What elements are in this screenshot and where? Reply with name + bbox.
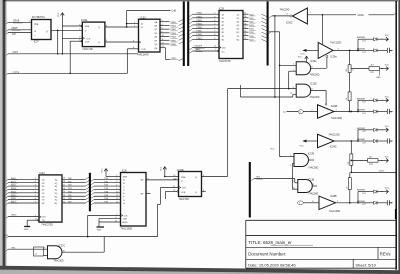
svg-text:14: 14 bbox=[63, 195, 65, 197]
svg-text:15: 15 bbox=[115, 221, 117, 223]
svg-text:6Q: 6Q bbox=[237, 32, 240, 34]
svg-text:QH: QH bbox=[140, 194, 144, 196]
wire CLK riser bbox=[62, 26, 82, 54]
IC26 CLK wire bbox=[88, 214, 121, 237]
IC29C input arrow bbox=[300, 140, 318, 148]
svg-text:74AC00D: 74AC00D bbox=[54, 260, 64, 263]
left scan edge bar bbox=[0, 0, 6, 274]
IC29B input bbox=[283, 110, 318, 114]
IC26 QH wire bbox=[146, 178, 179, 180]
IC13B output bbox=[312, 184, 317, 186]
flip-flop IC30a label bbox=[81, 19, 88, 22]
IC20a output wire bbox=[310, 66, 326, 68]
svg-text:8D: 8D bbox=[42, 203, 45, 205]
svg-text:13: 13 bbox=[162, 46, 164, 48]
net SD1 wire bbox=[251, 177, 298, 183]
svg-text:12: 12 bbox=[116, 198, 118, 200]
sheet text bbox=[355, 263, 376, 268]
svg-text:3: 3 bbox=[35, 181, 36, 183]
svg-text:8: 8 bbox=[35, 198, 36, 200]
svg-text:QC: QC bbox=[154, 29, 158, 31]
buffer IC28B bbox=[319, 196, 340, 213]
svg-text:SER: SER bbox=[123, 177, 128, 179]
svg-text:IC29C: IC29C bbox=[330, 147, 337, 149]
svg-text:9: 9 bbox=[214, 38, 215, 40]
rev text bbox=[380, 252, 391, 257]
net /SO wire bbox=[3, 235, 157, 238]
svg-text:74AC08D: 74AC08D bbox=[308, 193, 318, 196]
svg-text:VCC: VCC bbox=[385, 126, 390, 128]
flip-flop IC32B label bbox=[177, 169, 184, 172]
right border bbox=[396, 0, 400, 274]
IC26 SHLD wire bbox=[99, 219, 121, 227]
svg-text:7: 7 bbox=[116, 214, 117, 216]
svg-text:PRE: PRE bbox=[181, 177, 186, 179]
svg-text:VCC: VCC bbox=[58, 12, 60, 17]
svg-text:7: 7 bbox=[214, 31, 215, 33]
svg-text:CRA6: CRA6 bbox=[13, 20, 20, 23]
svg-text:4Q: 4Q bbox=[55, 190, 58, 192]
svg-text:13: 13 bbox=[63, 198, 65, 200]
svg-text:1Q: 1Q bbox=[55, 179, 58, 181]
wire IC30a Q out bbox=[105, 23, 128, 28]
svg-text:3: 3 bbox=[162, 20, 163, 22]
wire IC33 CLR staircase bbox=[128, 47, 139, 73]
svg-text:4: 4 bbox=[290, 155, 291, 157]
vertical net 3 bbox=[288, 71, 290, 89]
svg-text:(C): (C) bbox=[283, 112, 286, 114]
IC26 QHbar stub bbox=[146, 192, 151, 194]
svg-text:16: 16 bbox=[244, 23, 246, 25]
IC29a output wire bbox=[333, 49, 359, 52]
svg-text:QD: QD bbox=[154, 33, 158, 35]
svg-text:VCC: VCC bbox=[385, 35, 390, 37]
svg-text:INH: INH bbox=[123, 219, 127, 221]
VCC symbol 2 bbox=[102, 168, 108, 175]
svg-text:VCC: VCC bbox=[300, 146, 305, 148]
ground IC22 bbox=[24, 227, 30, 232]
svg-text:74AC125D: 74AC125D bbox=[331, 117, 343, 120]
svg-text:BAT86W: BAT86W bbox=[357, 47, 365, 50]
svg-text:3: 3 bbox=[214, 16, 215, 18]
svg-text:2: 2 bbox=[116, 178, 117, 180]
svg-text:74AC125D: 74AC125D bbox=[330, 42, 342, 45]
IC29B output wire bbox=[334, 110, 358, 113]
svg-text:1: 1 bbox=[79, 40, 80, 42]
svg-text:VCC: VCC bbox=[385, 156, 390, 158]
IC27B input wires bbox=[280, 155, 294, 167]
svg-text:16: 16 bbox=[63, 188, 65, 190]
svg-text:IC2?: IC2? bbox=[34, 42, 40, 44]
svg-text:4: 4 bbox=[79, 24, 80, 26]
svg-text:19: 19 bbox=[244, 13, 246, 15]
net /FLAG wire bbox=[6, 71, 127, 75]
svg-text:D1?: D1? bbox=[363, 193, 366, 195]
buffer IC29a part number bbox=[330, 42, 342, 45]
IC27C input box bbox=[34, 247, 48, 256]
svg-text:2Q: 2Q bbox=[237, 18, 240, 20]
svg-text:6: 6 bbox=[116, 217, 117, 219]
IC32B part number bbox=[179, 198, 190, 201]
svg-text:9: 9 bbox=[337, 201, 338, 203]
svg-text:1: 1 bbox=[35, 215, 36, 217]
svg-text:4D: 4D bbox=[42, 190, 45, 192]
svg-text:11: 11 bbox=[313, 184, 315, 186]
svg-text:15: 15 bbox=[244, 27, 246, 29]
svg-text:CLK: CLK bbox=[42, 217, 47, 219]
bus bar 1 bbox=[183, 2, 185, 67]
svg-text:VCC: VCC bbox=[385, 96, 390, 98]
title text bbox=[248, 240, 313, 245]
svg-text:10: 10 bbox=[116, 191, 118, 193]
svg-text:IC13E: IC13E bbox=[310, 83, 317, 85]
svg-text:PRE: PRE bbox=[85, 26, 90, 28]
svg-text:74AC00D: 74AC00D bbox=[308, 167, 318, 170]
svg-text:11: 11 bbox=[35, 254, 37, 256]
svg-text:8: 8 bbox=[287, 14, 288, 16]
svg-text:BAT86W: BAT86W bbox=[357, 97, 365, 100]
wire riser to CnB bbox=[127, 10, 171, 27]
svg-text:CRA6: CRA6 bbox=[358, 14, 365, 17]
wire IC33 A bbox=[127, 22, 139, 24]
svg-text:GND: GND bbox=[97, 230, 102, 232]
ground IC26 bbox=[97, 227, 105, 232]
bus bar 4 bbox=[249, 162, 251, 218]
svg-text:BAT86W: BAT86W bbox=[357, 189, 365, 192]
buffer IC29C part number bbox=[328, 134, 340, 137]
svg-text:18: 18 bbox=[244, 16, 246, 18]
svg-text:6Q: 6Q bbox=[55, 196, 58, 198]
latch IC22 bbox=[39, 175, 62, 222]
svg-text:/CP: /CP bbox=[12, 34, 16, 36]
svg-text:6: 6 bbox=[162, 31, 163, 33]
inverter IC36C part number bbox=[280, 9, 290, 12]
title block frame bbox=[246, 220, 396, 268]
svg-text:2D: 2D bbox=[42, 183, 45, 185]
svg-text:4Q: 4Q bbox=[237, 25, 240, 27]
svg-text:12: 12 bbox=[244, 38, 246, 40]
IC36C output to bus bbox=[269, 15, 290, 18]
svg-text:BAT86W: BAT86W bbox=[357, 36, 365, 39]
svg-text:1: 1 bbox=[29, 21, 30, 23]
AND gate IC13B bbox=[298, 179, 319, 195]
net CNT2 wire bbox=[351, 170, 396, 172]
chain link R2 to IC29B out bbox=[350, 111, 352, 113]
IC30a part number bbox=[82, 48, 93, 51]
svg-text:11: 11 bbox=[116, 195, 118, 197]
svg-text:9: 9 bbox=[148, 178, 149, 180]
wire CLR riser bbox=[70, 41, 82, 73]
svg-text:SC73B3731: SC73B3731 bbox=[32, 16, 46, 19]
svg-text:10: 10 bbox=[290, 93, 292, 95]
long wire from IC32B Q bbox=[228, 87, 297, 89]
svg-text:CLR: CLR bbox=[85, 41, 90, 43]
svg-text:19: 19 bbox=[63, 178, 65, 180]
svg-text:BAT86W: BAT86W bbox=[357, 138, 365, 141]
svg-text:10: 10 bbox=[390, 140, 392, 142]
svg-text:17: 17 bbox=[244, 20, 246, 22]
svg-text:Document Number:: Document Number: bbox=[248, 252, 286, 257]
svg-text:IC29B: IC29B bbox=[331, 106, 338, 108]
VCC above IC20a bbox=[298, 56, 309, 62]
IC29 part number bbox=[219, 60, 231, 63]
IC29a gate wire from IC20a bbox=[326, 57, 328, 68]
svg-text:Sheet: 5/10: Sheet: 5/10 bbox=[355, 263, 376, 268]
svg-text:REVs: REVs bbox=[380, 252, 391, 257]
svg-text:IC27C: IC27C bbox=[59, 246, 66, 248]
IC32B Qbar wire bbox=[202, 191, 206, 193]
svg-text:CLR: CLR bbox=[141, 49, 146, 51]
svg-text:/CNT: /CNT bbox=[13, 52, 19, 54]
latch IC22 label bbox=[40, 172, 46, 175]
svg-text:9: 9 bbox=[133, 40, 134, 42]
svg-text:7Q: 7Q bbox=[55, 200, 58, 202]
flip-flop IC30a bbox=[79, 22, 107, 46]
svg-text:QG: QG bbox=[154, 44, 158, 46]
wire IC33 B bbox=[127, 25, 139, 27]
IC13B in2 wire bbox=[292, 163, 297, 189]
svg-text:9: 9 bbox=[35, 201, 36, 203]
svg-text:IC29a: IC29a bbox=[330, 57, 337, 59]
resistor R1 bbox=[346, 65, 353, 73]
bus bar 2 bbox=[187, 2, 189, 67]
wire IC2out to /CNT bbox=[57, 29, 59, 53]
svg-text:QH: QH bbox=[140, 180, 144, 182]
svg-text:D1?: D1? bbox=[363, 204, 366, 206]
svg-text:4: 4 bbox=[299, 203, 300, 205]
latch IC29 label bbox=[219, 8, 225, 11]
svg-text:11: 11 bbox=[214, 46, 216, 48]
chip IC2 label bbox=[32, 16, 46, 19]
wire to IC20a in1 bbox=[280, 64, 297, 66]
latch IC29 bbox=[219, 11, 243, 59]
svg-text:CLK: CLK bbox=[124, 215, 129, 217]
svg-text:74AC166D: 74AC166D bbox=[121, 227, 133, 230]
IC33 output wires bbox=[160, 19, 184, 46]
IC29 OC wire bbox=[189, 48, 219, 53]
svg-text:D⊕: D⊕ bbox=[35, 23, 39, 26]
svg-text:74AC164D: 74AC164D bbox=[137, 53, 149, 56]
IC33 QH wire to PNB bbox=[160, 46, 184, 61]
svg-text:D1?: D1? bbox=[363, 102, 366, 104]
svg-text:1: 1 bbox=[116, 175, 117, 177]
svg-text:TITLE: 6526_main_er: TITLE: 6526_main_er bbox=[248, 240, 292, 245]
svg-text:11: 11 bbox=[162, 39, 164, 41]
wire VCC to PRE bbox=[62, 25, 82, 27]
IC32B CLK wire bbox=[158, 188, 179, 237]
svg-text:5: 5 bbox=[290, 165, 291, 167]
chain vertical lower bbox=[349, 141, 352, 204]
svg-text:CLK: CLK bbox=[182, 187, 187, 189]
net /CNT wire bbox=[6, 52, 138, 56]
shift register IC33 label bbox=[141, 17, 147, 20]
IC32B Q wire riser bbox=[202, 89, 228, 177]
svg-text:5: 5 bbox=[35, 188, 36, 190]
svg-text:1Q: 1Q bbox=[237, 14, 240, 16]
buffer IC29B bbox=[318, 105, 343, 120]
net VBC wire bbox=[6, 247, 47, 250]
svg-text:OC: OC bbox=[222, 51, 226, 53]
svg-text:14: 14 bbox=[244, 31, 246, 33]
IC26 part number bbox=[121, 227, 133, 230]
wire to IC20a in2 bbox=[289, 70, 297, 72]
svg-text:4: 4 bbox=[214, 20, 215, 22]
bottom scan edge bar bbox=[0, 266, 400, 274]
buffer IC29C bbox=[318, 134, 337, 148]
VCC symbol 1 bbox=[58, 12, 64, 26]
svg-text:3: 3 bbox=[336, 110, 337, 112]
svg-text:7: 7 bbox=[35, 195, 36, 197]
svg-text:CnB: CnB bbox=[172, 11, 177, 13]
svg-text:8: 8 bbox=[133, 47, 134, 49]
IC26 data wires bbox=[91, 178, 121, 205]
svg-text:3: 3 bbox=[79, 37, 80, 39]
diodes D11 D12 with VCC bbox=[357, 35, 393, 54]
svg-text:Q: Q bbox=[98, 42, 100, 44]
svg-text:7: 7 bbox=[148, 192, 149, 194]
diodes D17 D18 with VCC bbox=[357, 188, 393, 207]
svg-text:BAT86W: BAT86W bbox=[357, 109, 365, 112]
inverter IC36C bbox=[286, 8, 311, 25]
svg-text:11: 11 bbox=[312, 201, 314, 203]
svg-text:2: 2 bbox=[214, 13, 215, 15]
svg-text:8Q: 8Q bbox=[237, 39, 240, 41]
document number text bbox=[248, 252, 286, 257]
flip-flop IC32B bbox=[173, 172, 204, 197]
svg-text:3: 3 bbox=[312, 66, 313, 68]
svg-text:1: 1 bbox=[310, 12, 311, 14]
svg-text:VCC: VCC bbox=[270, 149, 275, 151]
net CRA6 right bbox=[358, 13, 397, 17]
VCC small mid bbox=[270, 149, 275, 151]
IC26 INH wire bbox=[99, 217, 121, 219]
wire to IC13E in2 bbox=[241, 85, 297, 97]
IC27B output bbox=[308, 159, 314, 161]
svg-text:IC36C: IC36C bbox=[286, 23, 293, 25]
IC26 SER wire bbox=[106, 175, 121, 177]
net CRA6 wire bbox=[6, 20, 31, 24]
right border thick stub bbox=[395, 209, 397, 219]
IC27C output wire bbox=[62, 237, 105, 253]
svg-text:8: 8 bbox=[312, 89, 313, 91]
svg-text:analog: analog bbox=[13, 71, 20, 73]
AND gate IC20a bbox=[296, 61, 320, 76]
svg-text:18: 18 bbox=[63, 181, 65, 183]
AND gate IC13E bbox=[296, 83, 320, 99]
svg-text:VCC: VCC bbox=[102, 168, 104, 173]
svg-text:6D: 6D bbox=[42, 196, 45, 198]
svg-text:10: 10 bbox=[162, 35, 164, 37]
svg-text:OC: OC bbox=[42, 220, 46, 222]
IC22 CLK wire bbox=[6, 215, 39, 219]
svg-text:SH/LD: SH/LD bbox=[122, 222, 128, 224]
chip IC2 bbox=[32, 20, 52, 44]
svg-text:4: 4 bbox=[35, 185, 36, 187]
resistor 4k7 RT2 bbox=[350, 156, 389, 166]
svg-text:9: 9 bbox=[293, 87, 294, 89]
svg-text:Q: Q bbox=[195, 192, 197, 194]
IC32B PRE wire bbox=[164, 175, 179, 177]
svg-text:VCC: VCC bbox=[385, 188, 390, 190]
vertical net 2 bbox=[269, 32, 281, 157]
diodes D13 D14 with VCC bbox=[357, 96, 393, 115]
svg-text:3: 3 bbox=[116, 181, 117, 183]
IC28B input bbox=[298, 201, 320, 205]
svg-text:15: 15 bbox=[63, 191, 65, 193]
svg-text:13: 13 bbox=[244, 34, 246, 36]
svg-text:5Q: 5Q bbox=[55, 193, 58, 195]
svg-text:8: 8 bbox=[338, 49, 339, 51]
resistor R2 bbox=[346, 92, 351, 101]
svg-text:10: 10 bbox=[63, 250, 65, 252]
svg-text:7Q: 7Q bbox=[237, 36, 240, 38]
resistor 4k7 R71 bbox=[351, 65, 390, 75]
svg-text:2Q: 2Q bbox=[55, 183, 58, 185]
GRD label bbox=[376, 71, 381, 80]
svg-text:5Q: 5Q bbox=[237, 29, 240, 31]
IC29 data wires bbox=[189, 13, 266, 42]
resistor R3 bbox=[348, 154, 353, 165]
shift register IC33 bbox=[139, 19, 161, 52]
svg-text:D1?: D1? bbox=[363, 142, 366, 144]
svg-text:74AC125D: 74AC125D bbox=[328, 134, 340, 137]
svg-text:3D: 3D bbox=[42, 186, 45, 188]
svg-text:8: 8 bbox=[44, 248, 45, 250]
svg-text:7D: 7D bbox=[42, 200, 45, 202]
svg-text:10: 10 bbox=[390, 111, 392, 113]
IC29a input arrow bbox=[301, 49, 319, 56]
IC22 data wires bbox=[6, 177, 89, 205]
svg-text:14: 14 bbox=[116, 201, 118, 203]
svg-text:Date: 15.05.2020 08:58:46: Date: 15.05.2020 08:58:46 bbox=[248, 263, 296, 268]
vertical net 1 lower bbox=[280, 156, 281, 158]
svg-text:1D: 1D bbox=[42, 179, 45, 181]
svg-text:QH: QH bbox=[154, 48, 158, 50]
IC13E output riser to IC29B gate pin bbox=[310, 89, 327, 106]
svg-text:GRD: GRD bbox=[376, 77, 381, 79]
svg-text:OB15: OB15 bbox=[12, 28, 19, 30]
resistor R4 bbox=[346, 178, 351, 190]
svg-text:/SO1: /SO1 bbox=[3, 235, 9, 237]
svg-text:1: 1 bbox=[215, 49, 216, 51]
svg-text:4: 4 bbox=[162, 24, 163, 26]
buffer IC28B label bbox=[330, 196, 337, 198]
IC22 part number bbox=[41, 224, 53, 227]
svg-text:3Q: 3Q bbox=[55, 186, 58, 188]
svg-text:1: 1 bbox=[293, 64, 294, 66]
svg-text:8Q: 8Q bbox=[55, 203, 58, 205]
svg-text:CLK: CLK bbox=[86, 38, 91, 40]
svg-text:IC20a: IC20a bbox=[310, 61, 317, 63]
svg-text:VCC: VCC bbox=[385, 65, 390, 67]
svg-text:74AC125D: 74AC125D bbox=[329, 210, 341, 213]
svg-text:VCC: VCC bbox=[160, 166, 162, 171]
IC13B in1 pin number bbox=[292, 181, 294, 183]
net CP wire bbox=[6, 33, 31, 36]
svg-text:12: 12 bbox=[63, 201, 65, 203]
svg-text:74AC04D: 74AC04D bbox=[280, 9, 290, 12]
svg-text:CLR: CLR bbox=[181, 192, 186, 194]
svg-text:74AC74D: 74AC74D bbox=[179, 198, 190, 201]
svg-text:Q: Q bbox=[195, 177, 197, 179]
top border bbox=[3, 0, 398, 2]
svg-text:2: 2 bbox=[79, 29, 80, 31]
date text bbox=[248, 263, 296, 268]
VCC symbol 3 bbox=[160, 166, 166, 175]
wire IC30a Qbar to IC33 CLK bbox=[105, 40, 139, 42]
resistor chain vertical bbox=[349, 50, 351, 112]
svg-text:WBC: WBC bbox=[11, 215, 17, 217]
